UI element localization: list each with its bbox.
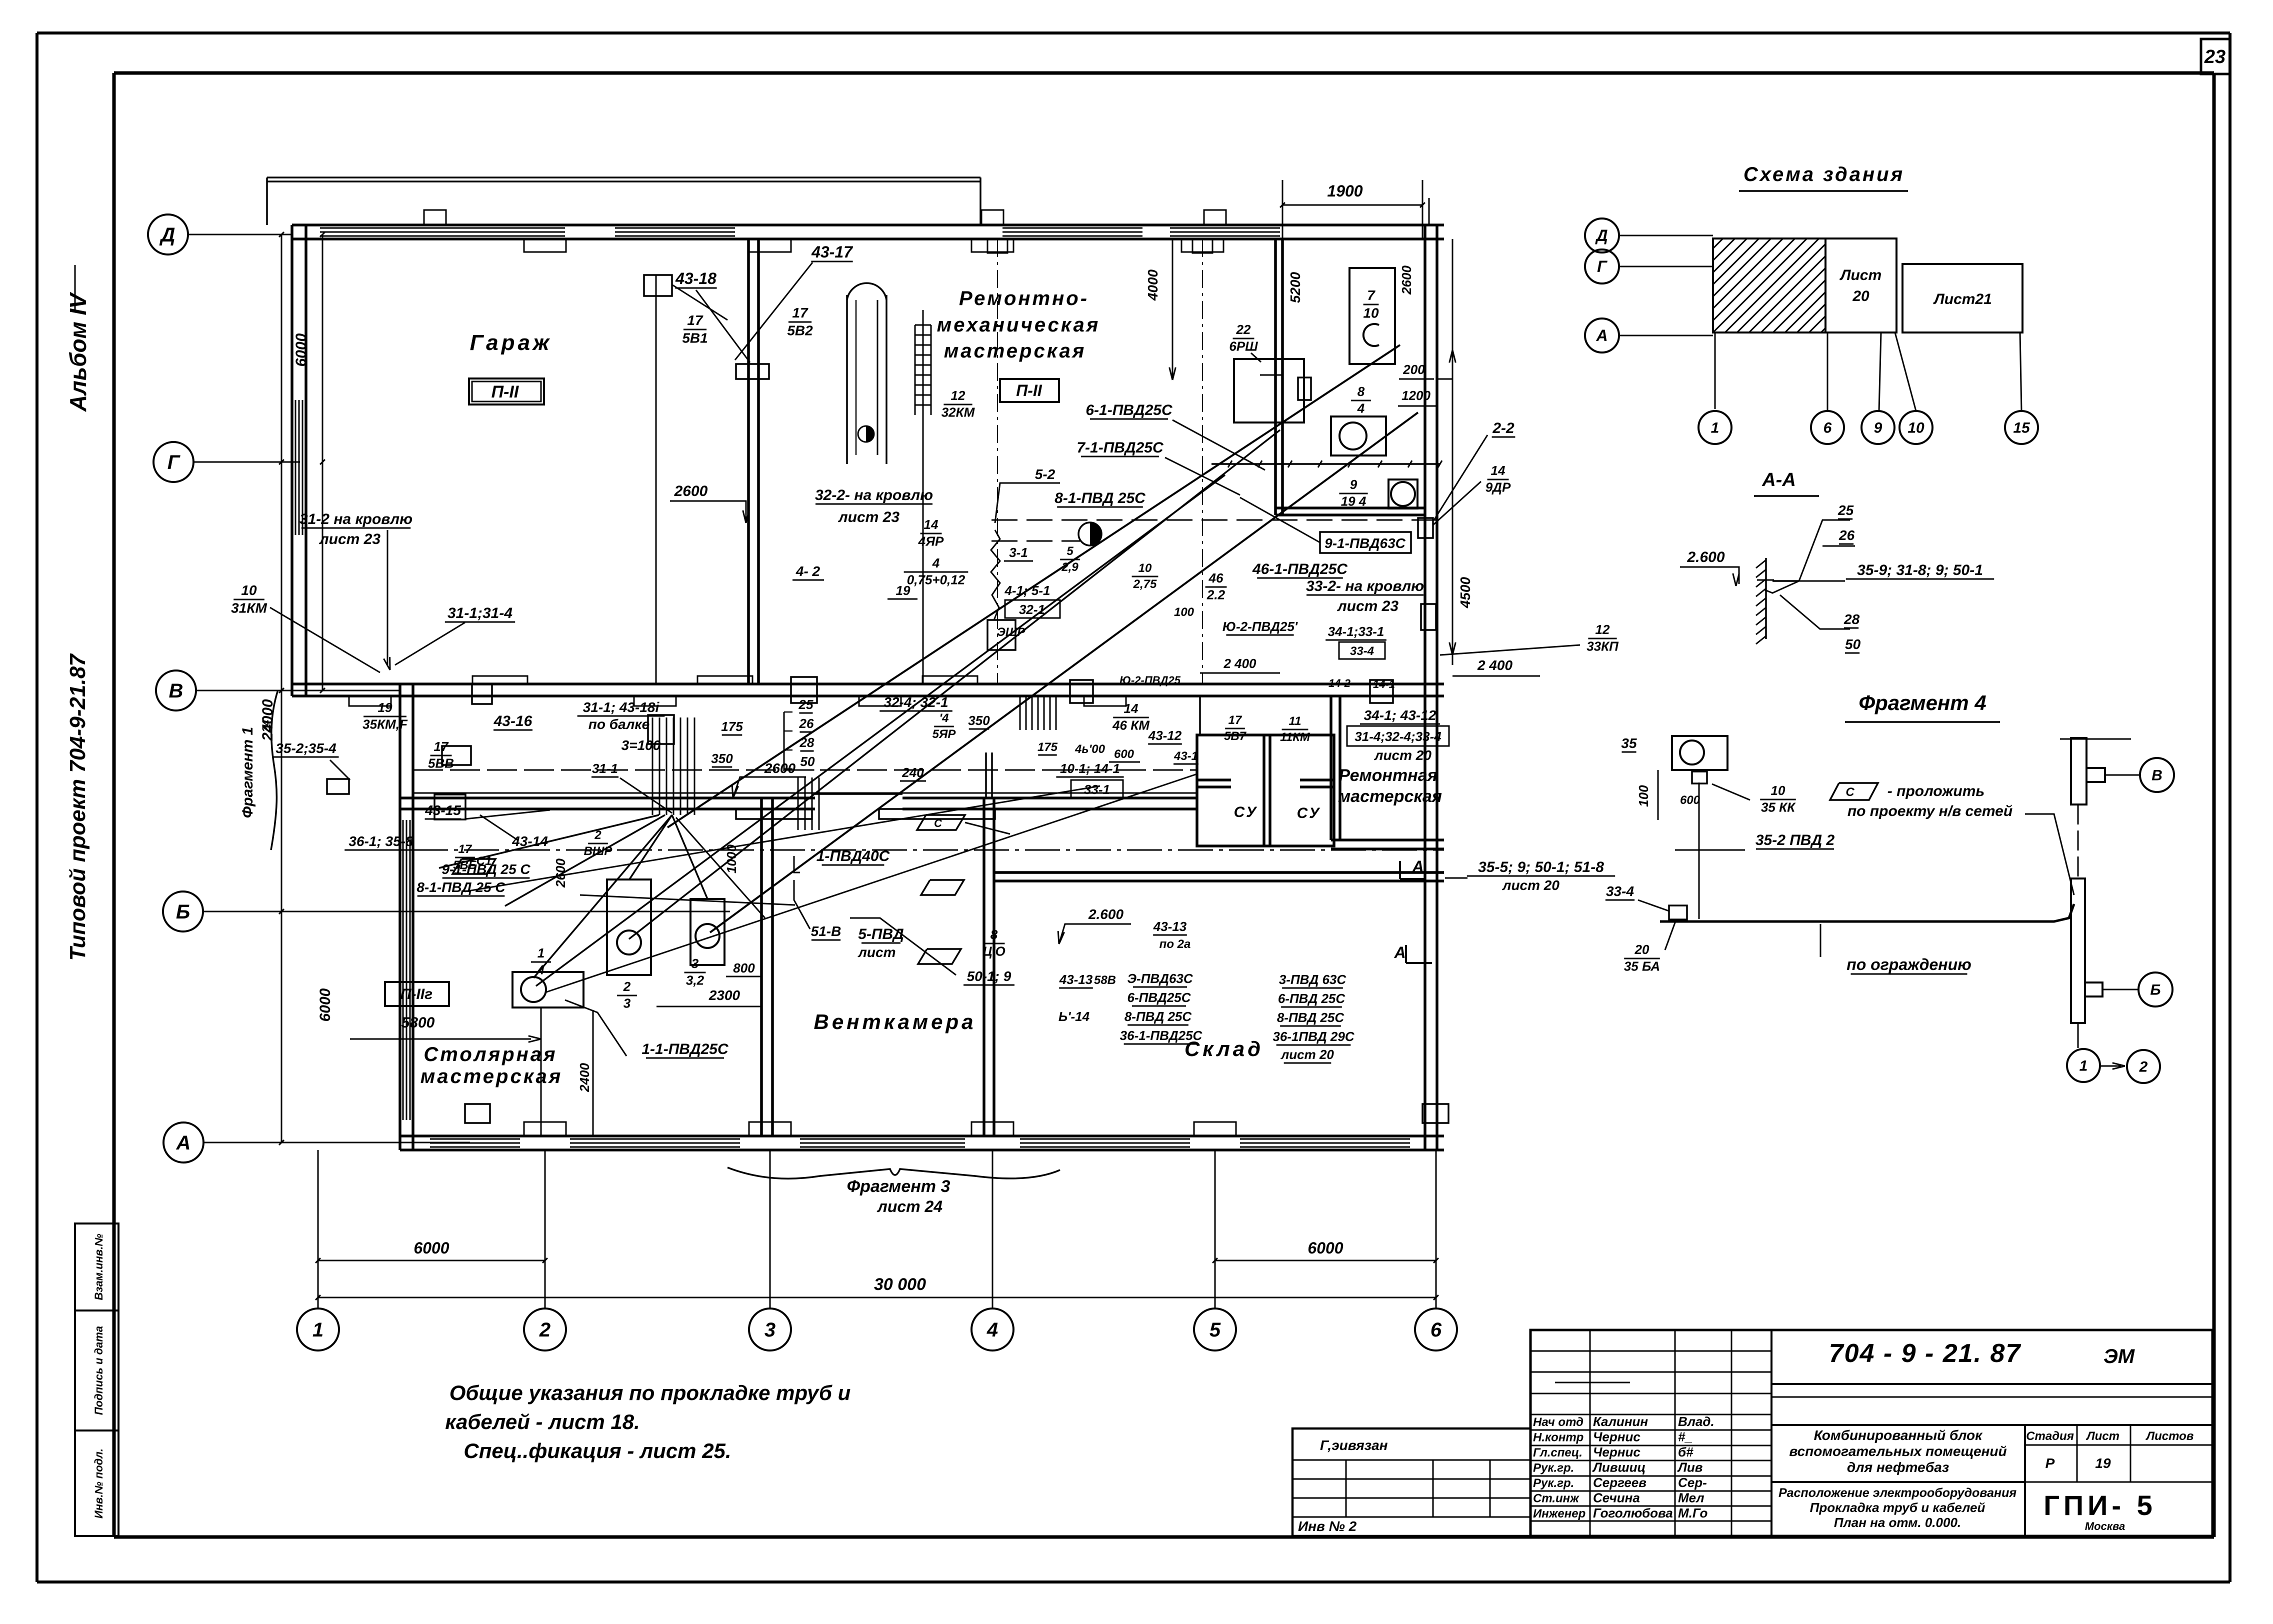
svg-text:лист 24: лист 24 (876, 1197, 942, 1215)
svg-text:Листов: Листов (2145, 1429, 2194, 1443)
svg-text:Э-ПВД63С: Э-ПВД63С (1127, 971, 1193, 986)
svg-text:10: 10 (1363, 305, 1379, 321)
equipment 8/4 fan (1331, 416, 1386, 455)
svg-text:33КП: 33КП (1586, 639, 1619, 654)
svg-text:704 - 9 - 21. 87: 704 - 9 - 21. 87 (1829, 1339, 2021, 1368)
svg-text:35-2 ПВД 2: 35-2 ПВД 2 (1755, 832, 1835, 848)
repair room west wall (1329, 696, 1332, 840)
svg-text:100: 100 (1174, 605, 1194, 619)
svg-text:19: 19 (896, 583, 910, 598)
svg-text:лист 23: лист 23 (318, 531, 380, 547)
svg-text:200: 200 (1402, 362, 1425, 377)
svg-text:2600: 2600 (674, 483, 708, 499)
svg-text:Стадия: Стадия (2026, 1429, 2074, 1443)
svg-text:43-13: 43-13 (1059, 972, 1093, 987)
svg-text:2.2: 2.2 (1206, 587, 1225, 602)
svg-text:лист 23: лист 23 (837, 509, 899, 525)
svg-text:1: 1 (312, 1319, 323, 1341)
bottom exterior wall (row А) (400, 1134, 1444, 1137)
svg-text:35: 35 (1621, 735, 1637, 751)
svg-text:35-9; 31-8; 9; 50-1: 35-9; 31-8; 9; 50-1 (1857, 562, 1983, 578)
svg-text:Инв.№ подл.: Инв.№ подл. (92, 1448, 105, 1518)
svg-text:1000: 1000 (724, 844, 739, 873)
svg-text:ГПИ- 5: ГПИ- 5 (2043, 1489, 2156, 1521)
svg-text:Схема здания: Схема здания (1743, 163, 1904, 185)
svg-text:1: 1 (537, 945, 544, 960)
svg-text:А: А (1595, 326, 1607, 344)
repair room south wall (1331, 838, 1444, 841)
sheet number box 23 (2201, 39, 2230, 74)
svg-text:350: 350 (968, 713, 990, 728)
svg-text:1900: 1900 (1327, 182, 1362, 200)
svg-text:Г: Г (1597, 257, 1607, 275)
svg-text:П-IIг: П-IIг (400, 986, 432, 1002)
svg-text:12: 12 (1595, 622, 1610, 637)
svg-text:4: 4 (1357, 401, 1365, 416)
svg-text:3=100: 3=100 (621, 737, 661, 753)
fragment 4 cable (1698, 782, 1700, 919)
svg-text:5: 5 (1066, 544, 1073, 558)
svg-text:17: 17 (687, 312, 703, 328)
fragment 1 bracket (271, 690, 278, 850)
svg-text:Спец..фикация - лист 25.: Спец..фикация - лист 25. (463, 1439, 731, 1462)
svg-text:175: 175 (1037, 740, 1058, 754)
svg-text:5В2: 5В2 (787, 323, 813, 338)
svg-text:5200: 5200 (1287, 271, 1303, 303)
svg-text:31-4;32-4;33-4: 31-4;32-4;33-4 (1354, 729, 1441, 744)
svg-text:лист 20: лист 20 (1280, 1047, 1334, 1062)
svg-text:Ю-2-ПВД25': Ю-2-ПВД25' (1222, 619, 1298, 634)
sanitary block (1197, 735, 1334, 846)
svg-text:Лист: Лист (2085, 1429, 2119, 1443)
svg-text:33-4: 33-4 (1350, 644, 1374, 658)
svg-text:по ограждению: по ограждению (1846, 955, 1971, 973)
svg-text:ЭМ: ЭМ (2103, 1345, 2135, 1367)
svg-text:14-1: 14-1 (1373, 678, 1395, 690)
svg-text:8-ПВД 25С: 8-ПВД 25С (1124, 1009, 1192, 1024)
svg-text:Гараж: Гараж (470, 330, 552, 355)
svg-text:мастерская: мастерская (944, 340, 1086, 362)
svg-text:Гл.спец.: Гл.спец. (1533, 1446, 1582, 1459)
svg-text:Подпись и дата: Подпись и дата (92, 1326, 105, 1415)
svg-text:9ДР: 9ДР (1485, 480, 1511, 495)
svg-text:4-1; 5-1: 4-1; 5-1 (1004, 583, 1050, 598)
svg-text:12: 12 (951, 388, 965, 403)
svg-text:43-17: 43-17 (811, 243, 853, 261)
svg-text:5-2: 5-2 (1035, 466, 1055, 482)
svg-text:5В1: 5В1 (682, 330, 707, 346)
svg-text:Сер-: Сер- (1678, 1475, 1707, 1490)
right exterior wall (1423, 225, 1426, 1150)
svg-text:Фрагмент 1: Фрагмент 1 (239, 727, 256, 818)
svg-text:Комбинированный блок: Комбинированный блок (1814, 1427, 1983, 1443)
windows bottom wall (430, 1138, 520, 1140)
svg-text:46-1-ПВД25С: 46-1-ПВД25С (1252, 561, 1348, 577)
svg-text:1-ПВД40С: 1-ПВД40С (816, 848, 890, 864)
svg-text:4: 4 (986, 1319, 998, 1341)
svg-text:Взам.инв.№: Взам.инв.№ (92, 1233, 105, 1300)
chimney tank (846, 295, 848, 464)
svg-text:механическая: механическая (937, 314, 1100, 336)
storage north wall (994, 871, 1444, 874)
svg-text:по 2а: по 2а (1159, 937, 1191, 951)
svg-text:Типовой проект 704-9-21.87: Типовой проект 704-9-21.87 (65, 653, 90, 961)
svg-text:1200: 1200 (1401, 388, 1430, 403)
wall box 14/9DR (1418, 518, 1433, 538)
left exterior wall upper (garage) (290, 225, 293, 696)
svg-text:26: 26 (799, 716, 814, 731)
svg-text:В: В (2151, 767, 2162, 784)
svg-text:по балке: по балке (588, 716, 649, 732)
left stamp strip (75, 1223, 118, 1536)
svg-text:Фрагмент 3: Фрагмент 3 (847, 1177, 950, 1196)
svg-text:6: 6 (1430, 1319, 1442, 1341)
svg-text:Инв № 2: Инв № 2 (1298, 1518, 1357, 1534)
left exterior wall lower (workshop) (398, 684, 401, 1150)
svg-text:32-4; 32-1: 32-4; 32-1 (883, 694, 948, 710)
svg-text:5ВВ: 5ВВ (428, 756, 454, 771)
svg-text:8-1-ПВД 25С: 8-1-ПВД 25С (1054, 490, 1146, 506)
axis circles left (148, 214, 188, 254)
svg-text:Г: Г (167, 451, 181, 473)
equipment 7/10 (1349, 268, 1395, 364)
svg-text:800: 800 (733, 960, 755, 975)
bottom dims (318, 1260, 545, 1261)
svg-text:6РШ: 6РШ (1229, 339, 1258, 354)
svg-text:31-1;31-4: 31-1;31-4 (447, 605, 512, 621)
svg-text:20: 20 (1634, 942, 1649, 957)
svg-text:ВШР: ВШР (584, 844, 613, 858)
svg-text:22: 22 (1236, 322, 1251, 337)
svg-text:10-1; 14-1: 10-1; 14-1 (1060, 761, 1120, 776)
svg-text:#_: #_ (1678, 1429, 1692, 1444)
svg-text:14-2: 14-2 (1328, 677, 1351, 689)
svg-text:11: 11 (1289, 714, 1301, 728)
svg-text:6-ПВД 25С: 6-ПВД 25С (1278, 991, 1346, 1006)
svg-text:Ремонтная: Ремонтная (1338, 766, 1437, 785)
ventchamber/storage wall (982, 798, 985, 1136)
svg-text:кабелей - лист 18.: кабелей - лист 18. (445, 1410, 639, 1433)
svg-text:10: 10 (241, 582, 257, 598)
svg-text:19 4: 19 4 (1341, 494, 1366, 509)
svg-text:4500: 4500 (1457, 576, 1473, 608)
svg-text:20: 20 (1852, 288, 1869, 304)
svg-text:6-1-ПВД25С: 6-1-ПВД25С (1085, 402, 1173, 418)
svg-text:5В7: 5В7 (1224, 729, 1247, 743)
svg-text:31КМ: 31КМ (231, 600, 267, 616)
svg-text:58В: 58В (1094, 973, 1116, 987)
svg-text:35КМ,F: 35КМ,F (362, 717, 408, 732)
svg-text:ЭШР: ЭШР (997, 625, 1026, 639)
svg-text:14: 14 (924, 517, 938, 532)
svg-text:П-II: П-II (1016, 381, 1042, 399)
svg-text:Фрагмент 4: Фрагмент 4 (1858, 691, 1986, 714)
svg-text:П-II: П-II (491, 382, 519, 401)
svg-text:Ц'О: Ц'О (982, 944, 1005, 959)
svg-text:2: 2 (539, 1319, 550, 1341)
svg-text:2400: 2400 (577, 1063, 592, 1092)
fan out to fixtures (629, 815, 672, 880)
svg-text:С: С (934, 817, 942, 829)
exterior wall top (row Д) (292, 223, 1444, 226)
svg-text:5ЯР: 5ЯР (932, 727, 956, 741)
svg-text:100: 100 (1636, 785, 1651, 807)
outer frame (37, 31, 2230, 34)
svg-text:0,75+0,12: 0,75+0,12 (907, 572, 965, 587)
svg-text:3: 3 (623, 996, 631, 1011)
svg-text:2600: 2600 (553, 858, 568, 888)
svg-text:2: 2 (623, 979, 631, 994)
svg-text:Столярная: Столярная (423, 1043, 557, 1065)
svg-text:6: 6 (1823, 420, 1832, 436)
svg-text:33-4: 33-4 (1606, 883, 1634, 899)
svg-text:А-А: А-А (1761, 469, 1796, 490)
svg-text:600: 600 (1114, 747, 1134, 761)
dash-dot center corridor (413, 849, 1444, 851)
svg-text:33-1: 33-1 (1084, 782, 1110, 797)
svg-text:6-ПВД25С: 6-ПВД25С (1127, 990, 1191, 1005)
svg-text:Общие указания по прокладке: Общие указания по прокладке труб и (449, 1381, 851, 1404)
svg-text:17: 17 (458, 842, 472, 856)
svg-text:Ремонтно-: Ремонтно- (959, 287, 1089, 309)
pilasters (524, 239, 566, 252)
svg-text:8-ПВД 25С: 8-ПВД 25С (1277, 1010, 1345, 1025)
svg-text:вспомогательных помещений: вспомогательных помещений (1789, 1443, 2006, 1459)
svg-text:19: 19 (2095, 1455, 2111, 1471)
svg-text:36-1-ПВД25С: 36-1-ПВД25С (1120, 1028, 1203, 1043)
svg-text:А: А (1393, 943, 1405, 961)
svg-text:Д: Д (159, 224, 175, 246)
main diagonal cable runs (667, 345, 1400, 827)
svg-text:43-15: 43-15 (424, 802, 461, 818)
svg-text:Лившиц: Лившиц (1592, 1460, 1645, 1475)
svg-text:31-2 на кровлю: 31-2 на кровлю (299, 511, 412, 527)
svg-text:Д: Д (1594, 226, 1607, 244)
svg-text:5: 5 (1209, 1319, 1221, 1341)
svg-text:35 БА: 35 БА (1624, 959, 1660, 974)
svg-text:Влад.: Влад. (1678, 1414, 1714, 1429)
svg-text:10: 10 (1138, 561, 1152, 575)
svg-text:30 000: 30 000 (874, 1275, 926, 1294)
interior wall row В (292, 682, 1444, 685)
svg-text:Ь'-14: Ь'-14 (1058, 1009, 1090, 1024)
svg-text:Нач отд: Нач отд (1533, 1415, 1583, 1429)
svg-text:Чернис: Чернис (1593, 1444, 1640, 1459)
svg-text:9: 9 (1874, 420, 1882, 436)
svg-text:50: 50 (800, 754, 815, 769)
svg-text:350: 350 (711, 751, 733, 766)
svg-text:26: 26 (1838, 527, 1855, 543)
svg-text:3-1: 3-1 (1009, 545, 1028, 560)
crane line + monorail dashed in RMM (1211, 463, 1440, 465)
svg-text:по проекту н/в сетей: по проекту н/в сетей (1847, 803, 2012, 819)
svg-text:2300: 2300 (708, 987, 740, 1003)
svg-text:25: 25 (798, 697, 813, 712)
svg-text:А: А (176, 1132, 191, 1154)
svg-text:2: 2 (594, 828, 601, 842)
schema leaders (1714, 332, 1716, 409)
svg-text:9-1-ПВД63С: 9-1-ПВД63С (1324, 535, 1406, 551)
svg-text:'4: '4 (939, 711, 948, 725)
svg-text:50-1; 9: 50-1; 9 (967, 968, 1011, 984)
svg-text:Гоголюбова: Гоголюбова (1593, 1505, 1673, 1520)
svg-text:2.600: 2.600 (1686, 549, 1724, 565)
equipment 9/19 (1388, 479, 1417, 508)
svg-text:28: 28 (1843, 611, 1860, 627)
svg-text:43-13: 43-13 (1153, 919, 1187, 934)
svg-text:лист: лист (857, 944, 896, 960)
svg-text:Калинин: Калинин (1593, 1414, 1648, 1429)
svg-text:2 400: 2 400 (1477, 657, 1512, 673)
svg-text:Венткамера: Венткамера (813, 1010, 976, 1033)
svg-text:23: 23 (2204, 46, 2225, 67)
svg-text:8-1-ПВД 25 С: 8-1-ПВД 25 С (416, 879, 505, 895)
svg-text:25: 25 (1837, 502, 1854, 518)
svg-text:1-1-ПВД25С: 1-1-ПВД25С (641, 1041, 729, 1057)
svg-text:Сечина: Сечина (1593, 1490, 1640, 1505)
svg-text:б#: б# (1678, 1444, 1693, 1459)
svg-text:В: В (169, 680, 183, 702)
svg-text:7: 7 (1367, 287, 1375, 303)
svg-text:15: 15 (2013, 420, 2030, 436)
garage riser 43-18 (655, 275, 657, 684)
corridor trunk lines (413, 769, 1197, 771)
svg-text:46: 46 (1208, 570, 1223, 585)
svg-text:Ю-2-ПВД25: Ю-2-ПВД25 (1119, 674, 1181, 686)
svg-text:План на отм. 0.000.: План на отм. 0.000. (1834, 1515, 1961, 1530)
fragment 3 brace (727, 1167, 1060, 1178)
svg-text:2600: 2600 (1399, 265, 1414, 295)
svg-text:4ЯР: 4ЯР (918, 534, 944, 549)
svg-text:для нефтебаз: для нефтебаз (1847, 1459, 1949, 1475)
svg-text:5800: 5800 (401, 1014, 435, 1031)
svg-text:1: 1 (1711, 420, 1719, 436)
svg-text:2,9: 2,9 (1061, 560, 1078, 574)
canopy above top wall (267, 176, 980, 178)
svg-text:43-12: 43-12 (1148, 728, 1182, 743)
svg-text:51-В: 51-В (811, 923, 841, 939)
svg-text:А: А (1411, 857, 1423, 875)
svg-text:8: 8 (990, 927, 998, 942)
svg-text:2.600: 2.600 (1088, 906, 1123, 922)
svg-text:35-5; 9; 50-1; 51-8: 35-5; 9; 50-1; 51-8 (1478, 859, 1604, 875)
svg-text:1: 1 (2079, 1058, 2088, 1074)
svg-text:С1: С1 (476, 854, 492, 868)
fragment 4 walls right (2071, 738, 2086, 804)
axis circles bottom (297, 1308, 339, 1350)
svg-text:17: 17 (792, 305, 808, 320)
cable bundle crossing corridor (652, 717, 653, 815)
svg-text:33-2- на кровлю: 33-2- на кровлю (1306, 578, 1424, 594)
svg-text:2: 2 (2139, 1059, 2148, 1075)
svg-text:лист 20: лист 20 (1373, 747, 1431, 763)
stair (915, 324, 931, 326)
svg-text:32-1: 32-1 (1019, 602, 1045, 617)
svg-text:35-2;35-4: 35-2;35-4 (275, 740, 336, 756)
svg-text:43-14: 43-14 (511, 833, 548, 849)
svg-text:2 400: 2 400 (1223, 656, 1256, 671)
svg-text:6000: 6000 (1307, 1239, 1343, 1257)
svg-text:24: 24 (260, 720, 272, 732)
vertical dim lines (281, 234, 282, 1142)
svg-text:6000: 6000 (413, 1239, 449, 1257)
svg-text:2,75: 2,75 (1133, 577, 1157, 591)
svg-text:31-1: 31-1 (592, 761, 618, 776)
workshop/ventchamber wall (760, 798, 763, 1136)
svg-text:4: 4 (932, 555, 940, 570)
svg-text:Прокладка труб и кабелей: Прокладка труб и кабелей (1810, 1500, 1985, 1515)
svg-text:7-1-ПВД25С: 7-1-ПВД25С (1076, 439, 1164, 456)
hatched block (1713, 238, 1825, 332)
svg-text:лист 20: лист 20 (1501, 877, 1559, 893)
svg-text:Москва: Москва (2085, 1520, 2125, 1532)
svg-text:Лист21: Лист21 (1933, 291, 1992, 307)
svg-text:19: 19 (378, 700, 392, 715)
svg-text:СУ: СУ (1234, 804, 1258, 820)
svg-text:4000: 4000 (1145, 269, 1160, 301)
svg-text:10: 10 (1771, 783, 1785, 798)
svg-text:3-ПВД 63С: 3-ПВД 63С (1279, 972, 1347, 987)
south corridor wall (400, 796, 815, 799)
svg-text:10: 10 (1907, 420, 1924, 436)
svg-text:2-2: 2-2 (1492, 420, 1514, 436)
svg-text:Б: Б (176, 901, 190, 923)
svg-text:Б: Б (2150, 982, 2160, 998)
windows top wall (320, 227, 565, 229)
svg-text:14: 14 (1491, 463, 1505, 478)
svg-text:5-ПВД: 5-ПВД (858, 926, 904, 942)
svg-text:Р: Р (2045, 1455, 2055, 1471)
svg-text:Инженер: Инженер (1533, 1507, 1585, 1520)
svg-text:46 КМ: 46 КМ (1112, 718, 1150, 733)
svg-text:43-16: 43-16 (493, 713, 532, 729)
svg-text:3: 3 (764, 1319, 775, 1341)
svg-text:Расположение электрооборудован: Расположение электрооборудования (1778, 1486, 2016, 1500)
svg-text:28: 28 (799, 735, 814, 750)
svg-text:36-1; 35-8: 36-1; 35-8 (348, 833, 413, 849)
svg-text:17: 17 (1228, 713, 1242, 727)
svg-text:Мел: Мел (1678, 1490, 1704, 1505)
svg-text:14: 14 (1124, 701, 1138, 716)
svg-text:32КМ: 32КМ (941, 405, 975, 420)
svg-text:175: 175 (721, 719, 743, 734)
svg-text:3: 3 (691, 956, 699, 971)
windows left wall lower (402, 820, 404, 1120)
svg-text:34-1; 43-12: 34-1; 43-12 (1364, 707, 1436, 723)
svg-text:43-1: 43-1 (1173, 749, 1198, 763)
svg-text:3,2: 3,2 (686, 973, 704, 988)
windows left wall upper (295, 400, 296, 535)
svg-text:М.Го: М.Го (1678, 1505, 1708, 1520)
svg-text:Чернис: Чернис (1593, 1429, 1640, 1444)
svg-text:С: С (1845, 785, 1854, 799)
svg-text:50: 50 (1845, 636, 1861, 652)
svg-text:мастерская: мастерская (1338, 787, 1442, 806)
svg-text:8: 8 (1357, 384, 1365, 399)
svg-text:Рук.гр.: Рук.гр. (1533, 1476, 1574, 1490)
svg-text:Н.контр: Н.контр (1533, 1431, 1583, 1444)
svg-text:4- 2: 4- 2 (795, 563, 820, 579)
svg-text:Альбом IV: Альбом IV (65, 292, 91, 412)
svg-text:32-2- на кровлю: 32-2- на кровлю (815, 487, 933, 503)
svg-text:35 КК: 35 КК (1761, 800, 1796, 815)
equipment boxes stolyarka (607, 879, 651, 975)
BRSh cabinet (1234, 359, 1304, 422)
inner frame (114, 71, 2214, 75)
RMM top-right room partition (1274, 239, 1277, 515)
svg-text:11КМ: 11КМ (1280, 730, 1310, 744)
svg-text:9: 9 (1350, 477, 1357, 492)
